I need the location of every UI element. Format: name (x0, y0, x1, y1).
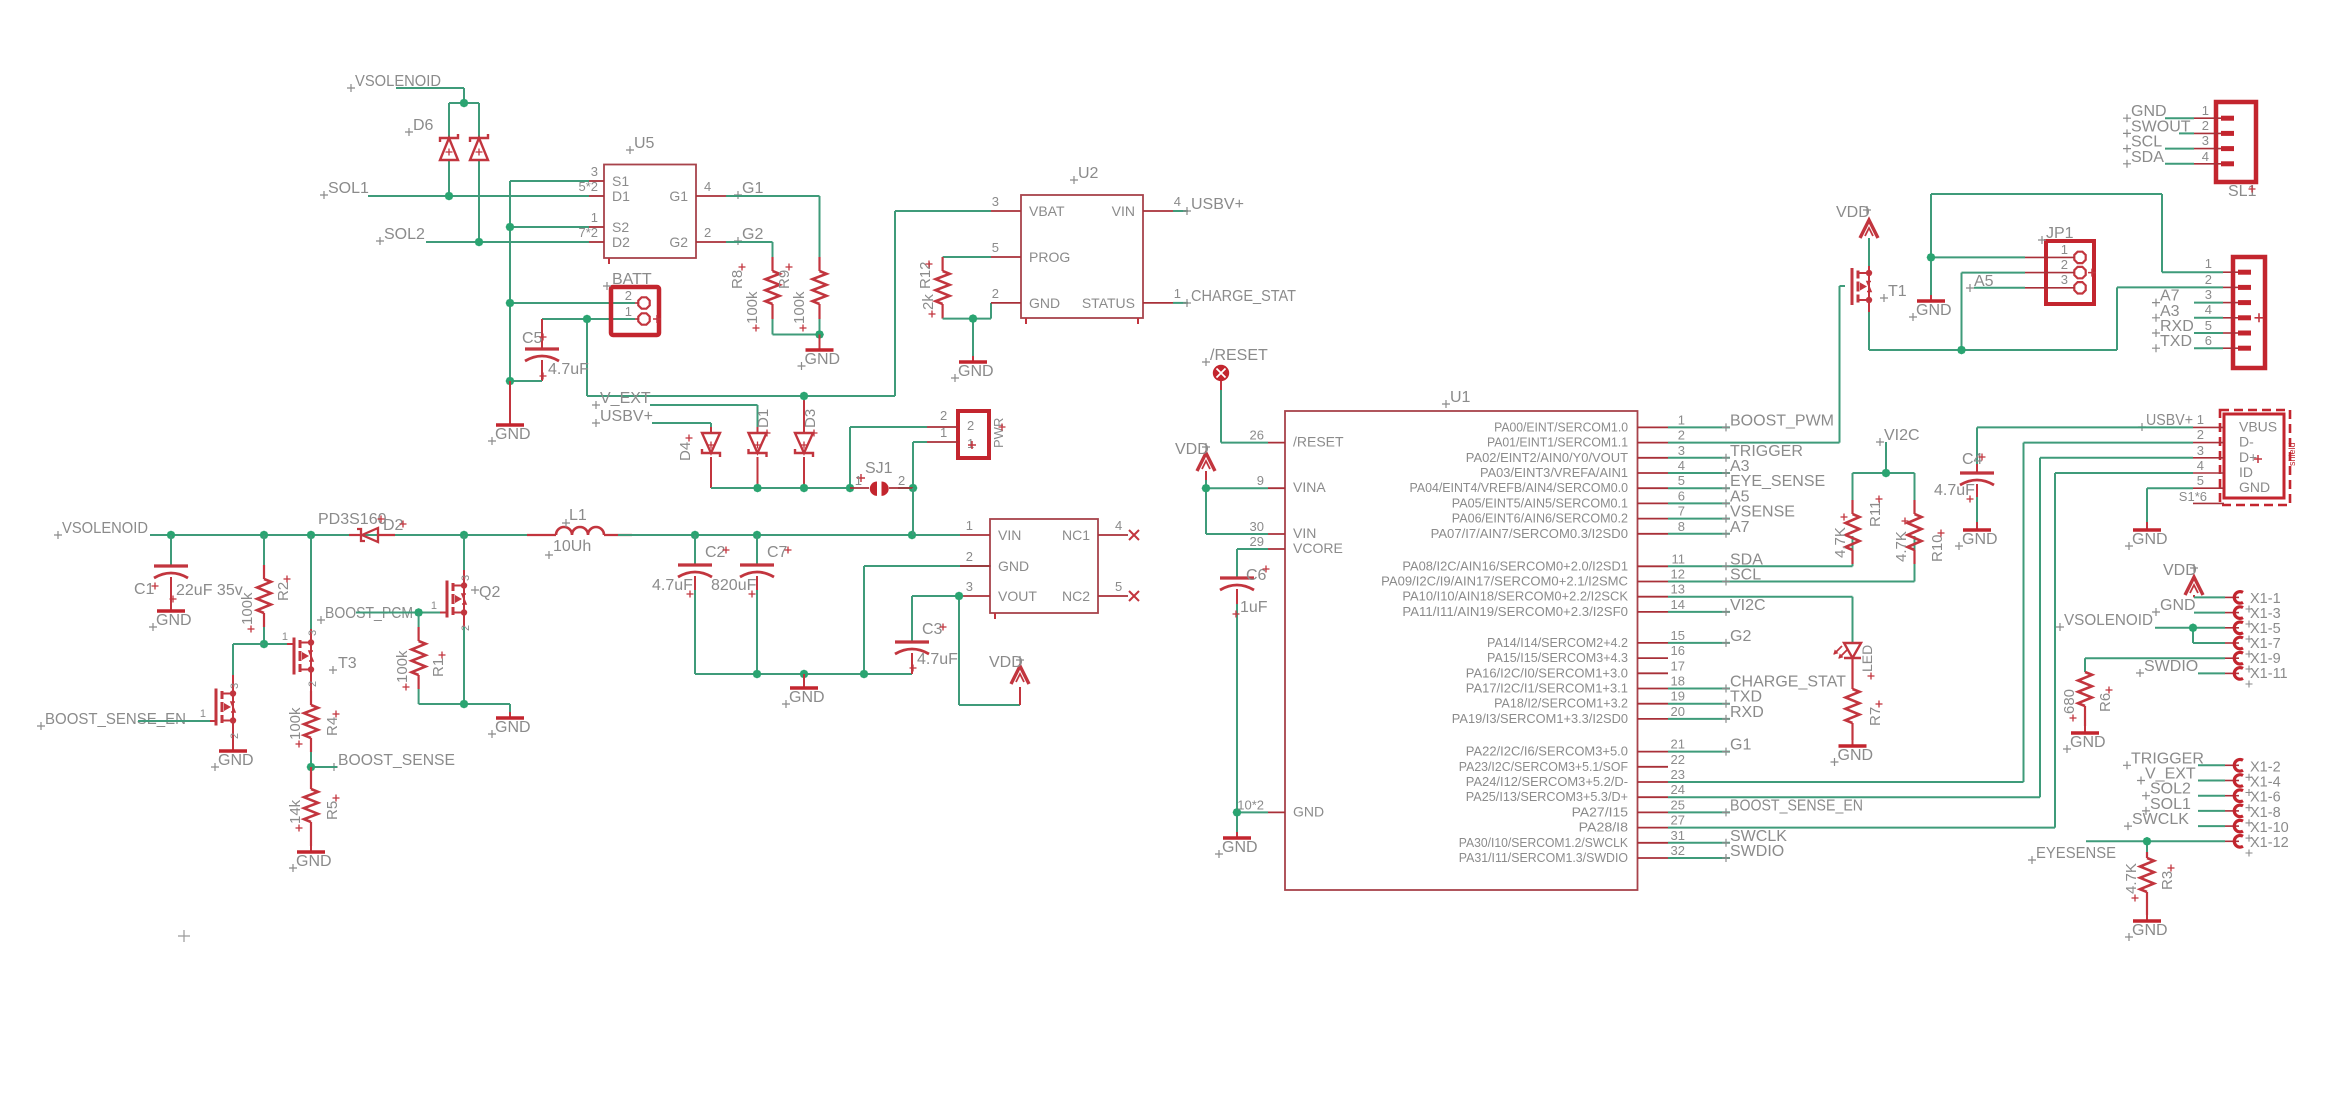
svg-text:BOOST_SENSE: BOOST_SENSE (338, 752, 455, 769)
svg-text:SWDIO: SWDIO (2144, 658, 2198, 675)
wire X1-9 to R6 (2085, 658, 2225, 672)
svg-text:R12: R12 (917, 261, 934, 289)
wire RXD X2 (2194, 332, 2223, 334)
svg-text:VSOLENOID: VSOLENOID (2064, 612, 2153, 629)
svg-text:G1: G1 (1730, 737, 1751, 754)
svg-text:PA23/I2C/SERCOM3+5.1/SOF: PA23/I2C/SERCOM3+5.1/SOF (1459, 760, 1629, 774)
resistor R3 (2123, 852, 2176, 915)
net label BOOST_PCM (317, 605, 413, 624)
svg-text:1: 1 (591, 210, 598, 225)
wire R1/Q2 source to GND (419, 704, 510, 712)
junction T1 bus (1957, 346, 1966, 355)
svg-text:GND: GND (2132, 922, 2168, 939)
svg-text:PA22/I2C/I6/SERCOM3+5.0: PA22/I2C/I6/SERCOM3+5.0 (1466, 745, 1628, 759)
wire VDD to VINA/VIN (1206, 480, 1268, 534)
connector BATT (603, 271, 661, 335)
junction BATT pin1 (583, 315, 592, 324)
wire U1 pin 7 (1668, 518, 1730, 520)
svg-text:VIN: VIN (1112, 203, 1135, 219)
svg-text:3: 3 (229, 683, 241, 689)
svg-text:4.7uF: 4.7uF (652, 577, 693, 594)
wire G2 (726, 242, 773, 264)
net label G1 (734, 180, 763, 199)
svg-text:12: 12 (1671, 567, 1685, 582)
svg-text:PA16/I2C/I0/SERCOM1+3.0: PA16/I2C/I0/SERCOM1+3.0 (1466, 666, 1628, 680)
svg-text:VCORE: VCORE (1293, 540, 1343, 556)
svg-text:SWCLK: SWCLK (2132, 811, 2189, 828)
wire U1 pin 15 (1668, 642, 1730, 644)
svg-text:PA31/I11/SERCOM1.3/SWDIO: PA31/I11/SERCOM1.3/SWDIO (1459, 851, 1628, 865)
svg-text:100k: 100k (287, 707, 304, 740)
svg-text:GND: GND (1916, 302, 1952, 319)
svg-text:PA14/I14/SERCOM2+4.2: PA14/I14/SERCOM2+4.2 (1487, 636, 1628, 650)
svg-text:1: 1 (855, 473, 862, 488)
svg-text:C1: C1 (134, 581, 155, 598)
ground below R9 (798, 335, 841, 371)
wire X1-1 (2194, 596, 2225, 598)
wire JP1 pin1 net (1931, 194, 2162, 295)
svg-text:PA04/EINT4/VREFB/AIN4/SERCOM0.: PA04/EINT4/VREFB/AIN4/SERCOM0.0 (1410, 481, 1629, 495)
wire U1 pin 31 (1668, 842, 1730, 844)
wire U1 pin 1 (1668, 426, 1730, 428)
svg-text:X1-2: X1-2 (2250, 759, 2281, 775)
svg-text:T3: T3 (338, 655, 357, 672)
pin X1-12 (2225, 835, 2289, 857)
svg-text:X1-12: X1-12 (2250, 835, 2289, 851)
svg-text:1: 1 (967, 436, 974, 451)
svg-text:PA25/I13/SERCOM3+5.3/D+: PA25/I13/SERCOM3+5.3/D+ (1466, 790, 1628, 804)
wire VCORE to C6 (1237, 549, 1268, 578)
svg-text:R10: R10 (1929, 534, 1946, 562)
svg-text:R4: R4 (324, 717, 341, 736)
junction boost ground bus (753, 670, 869, 679)
wire A5 JP1 pin3 (1974, 287, 2025, 289)
svg-text:RXD: RXD (1730, 704, 1764, 721)
svg-text:S2: S2 (612, 219, 629, 235)
svg-text:15: 15 (1671, 628, 1685, 643)
svg-text:GND: GND (2160, 597, 2196, 614)
svg-text:GND: GND (998, 558, 1029, 574)
svg-text:GND: GND (156, 612, 192, 629)
wire U1 pin 21 (1668, 751, 1730, 753)
net label SOL2 (X1) (2142, 781, 2191, 800)
wire U1 pin 8 (1668, 533, 1730, 535)
svg-text:3: 3 (591, 164, 598, 179)
svg-text:X1-9: X1-9 (2250, 651, 2281, 667)
wire D+ riser (2039, 458, 2041, 797)
svg-text:VSOLENOID: VSOLENOID (62, 520, 148, 537)
svg-text:GND: GND (789, 689, 825, 706)
svg-text:2: 2 (992, 286, 999, 301)
pin X1-2 (2225, 759, 2281, 781)
svg-text:820uF: 820uF (711, 577, 757, 594)
svg-text:29: 29 (1250, 534, 1264, 549)
svg-text:PA11/I11/AIN19/SERCOM0+2.3/I2S: PA11/I11/AIN19/SERCOM0+2.3/I2SF0 (1402, 605, 1628, 619)
capacitor C2 (652, 535, 730, 674)
svg-text:U5: U5 (634, 135, 655, 152)
wire X1-5 X1-7 (2155, 628, 2225, 643)
wire SDA SL1 (2165, 163, 2194, 165)
svg-text:NC2: NC2 (1062, 588, 1090, 604)
svg-text:5: 5 (2197, 473, 2204, 488)
svg-text:PA18/I2/SERCOM1+3.2: PA18/I2/SERCOM1+3.2 (1494, 697, 1628, 711)
junction SOL1 (445, 192, 454, 201)
junction boost input rail (691, 531, 917, 540)
ground below Q2 (488, 712, 531, 738)
svg-text:680: 680 (2061, 689, 2078, 714)
svg-text:1: 1 (2202, 103, 2209, 118)
svg-text:PA17/I2C/I1/SERCOM1+3.1: PA17/I2C/I1/SERCOM1+3.1 (1466, 682, 1628, 696)
svg-text:5: 5 (2205, 318, 2212, 333)
ground below R12 (951, 356, 994, 382)
LED (1834, 643, 1875, 680)
net label V_EXT (X1) (2137, 766, 2196, 785)
junction C5 bottom (506, 377, 515, 386)
net label USBV+ (diode row) (592, 408, 653, 427)
transistor Q1 boost sense switch (200, 675, 241, 743)
svg-text:VDD: VDD (2163, 562, 2197, 579)
wire L1 to boost VIN (618, 534, 960, 536)
svg-text:S1: S1 (612, 173, 629, 189)
supply symbol /RESET (1213, 365, 1229, 390)
net label GND (SL1) (2123, 103, 2167, 122)
resistor R4 (287, 691, 341, 767)
svg-text:18: 18 (1671, 674, 1685, 689)
svg-text:ID: ID (2239, 464, 2253, 480)
svg-text:3: 3 (992, 194, 999, 209)
svg-text:4: 4 (1678, 458, 1685, 473)
wire X2 pin2 (2117, 286, 2223, 288)
svg-text:VOUT: VOUT (998, 588, 1037, 604)
capacitor C4 (1934, 427, 1994, 522)
wire U1 pin 18 (1668, 688, 1730, 690)
svg-text:GND: GND (495, 426, 531, 443)
wire T3 gate to Q1 drain (233, 644, 264, 675)
net label RXD (U1 pin 20) (1722, 704, 1764, 723)
diode D4 (677, 427, 720, 488)
svg-text:T1: T1 (1888, 283, 1907, 300)
ground below C6 (1215, 832, 1258, 858)
junction VDD VINA (1202, 484, 1211, 493)
svg-text:CHARGE_STAT: CHARGE_STAT (1191, 288, 1296, 305)
svg-text:2k: 2k (920, 294, 937, 310)
wire /RESET to U1 (1221, 390, 1268, 443)
wire SJ1 down to VIN rail (912, 488, 914, 535)
transistor T3 (264, 535, 357, 691)
svg-text:2: 2 (2205, 272, 2212, 287)
svg-text:4: 4 (2202, 149, 2209, 164)
svg-text:SWDIO: SWDIO (1730, 843, 1784, 860)
svg-text:R5: R5 (324, 801, 341, 820)
net label A5 (JP1) (1966, 273, 1994, 292)
wire TRIGGER X1 (2198, 764, 2225, 766)
svg-text:PROG: PROG (1029, 249, 1070, 265)
svg-text:X1-4: X1-4 (2250, 775, 2281, 791)
svg-text:VI2C: VI2C (1884, 427, 1920, 444)
junction VSOLENOID top (460, 99, 469, 108)
svg-text:2: 2 (1678, 428, 1685, 443)
wire C6 to U1 GND pin (1237, 812, 1268, 832)
svg-text:/RESET: /RESET (1210, 347, 1268, 364)
wire boost ground bus (695, 566, 991, 674)
net label SWDIO (U1 pin 32) (1722, 843, 1784, 862)
wire V_EXT (650, 405, 758, 427)
net label VI2C (U1 pin 14) (1722, 597, 1766, 616)
wire U1 pin 20 (1668, 718, 1730, 720)
svg-text:PA15/I15/SERCOM3+4.3: PA15/I15/SERCOM3+4.3 (1487, 651, 1628, 665)
net label A7 (X2) (2152, 288, 2180, 307)
svg-text:GND: GND (2070, 734, 2106, 751)
svg-text:VBAT: VBAT (1029, 203, 1065, 219)
svg-text:22: 22 (1671, 752, 1685, 767)
wire VOUT to VDD (912, 596, 1020, 705)
supply VDD (T1) (1836, 204, 1878, 238)
svg-text:2: 2 (2061, 257, 2068, 272)
svg-text:G1: G1 (742, 180, 763, 197)
svg-text:4: 4 (1115, 518, 1122, 533)
wire G1 (726, 196, 820, 264)
junction JP1 pin1 (1927, 253, 1936, 262)
svg-text:BOOST_SENSE_EN: BOOST_SENSE_EN (45, 711, 186, 728)
svg-text:D2: D2 (383, 517, 404, 534)
svg-text:PA00/EINT/SERCOM1.0: PA00/EINT/SERCOM1.0 (1494, 420, 1628, 434)
svg-text:PA05/EINT5/AIN5/SERCOM0.1: PA05/EINT5/AIN5/SERCOM0.1 (1452, 496, 1628, 510)
ground below R5 (289, 846, 332, 872)
svg-text:5: 5 (992, 240, 999, 255)
resistor R12 (917, 257, 950, 319)
capacitor C5 (522, 319, 589, 381)
wire SOL2 X1 (2198, 795, 2225, 797)
svg-text:6: 6 (1678, 488, 1685, 503)
net label /RESET (1202, 347, 1268, 366)
svg-text:4.7uF: 4.7uF (917, 651, 958, 668)
svg-text:PD3S160: PD3S160 (318, 511, 387, 528)
junction Q2 source (460, 700, 469, 709)
svg-text:3: 3 (966, 579, 973, 594)
connector SL1 (2194, 102, 2257, 200)
svg-text:10Uh: 10Uh (553, 538, 591, 555)
svg-text:2: 2 (2197, 427, 2204, 442)
resistor R7 (1846, 658, 1885, 740)
svg-text:5: 5 (1678, 473, 1685, 488)
wire R12 to PROG (943, 256, 991, 258)
svg-text:27: 27 (1671, 813, 1685, 828)
junction VOUT (955, 592, 964, 601)
svg-text:1: 1 (282, 631, 288, 643)
svg-text:1: 1 (1678, 412, 1685, 427)
svg-text:X1-11: X1-11 (2250, 666, 2288, 682)
svg-text:X1-1: X1-1 (2250, 591, 2281, 607)
svg-text:D4: D4 (677, 442, 694, 461)
net label SWOUT (SL1) (2123, 118, 2191, 137)
wire U1 pin 4 (1668, 472, 1730, 474)
svg-text:D1: D1 (755, 409, 772, 428)
wire U1 pin 14 (1668, 611, 1730, 613)
svg-text:3: 3 (2061, 272, 2068, 287)
junction BATT pin2 (506, 299, 515, 308)
net label SWDIO (X1-11) (2136, 658, 2198, 677)
ground below C1 (149, 605, 192, 631)
wire U1 pin 25 (1668, 811, 1730, 813)
supply VDD (U1) (1175, 441, 1215, 480)
svg-text:VBUS: VBUS (2239, 418, 2277, 434)
svg-text:R6: R6 (2097, 693, 2114, 712)
net label GND (X1-3) (2152, 597, 2196, 616)
wire T1 source bus (1869, 273, 2117, 350)
net label BOOST_SENSE_EN (U1 pin 25) (1722, 797, 1863, 816)
wire U5 S1/S2 feed (510, 181, 589, 381)
schottky diode D2 PD3S160 (318, 511, 407, 542)
svg-text:GND: GND (1222, 839, 1258, 856)
transistor T1 (1852, 238, 1907, 312)
wire U1 pin 19 (1668, 703, 1730, 705)
svg-text:shield: shield (2287, 442, 2297, 466)
wire U1 pin 32 (1668, 857, 1730, 859)
svg-text:S1*6: S1*6 (2179, 489, 2207, 504)
net label SCL (SL1) (2123, 134, 2162, 153)
net label USBV+ (U2) (1183, 196, 1244, 215)
svg-text:1: 1 (1174, 286, 1181, 301)
junction D3 top (800, 392, 809, 401)
svg-text:GND: GND (1029, 295, 1060, 311)
svg-text:20: 20 (1671, 704, 1685, 719)
svg-text:1: 1 (940, 425, 947, 440)
wire X1-3 (2194, 612, 2225, 614)
svg-text:2: 2 (898, 473, 905, 488)
net label SDA (U1 pin 11) (1722, 551, 1763, 570)
junction diode bus (753, 484, 917, 493)
svg-text:4: 4 (2197, 458, 2204, 473)
net label VSOLENOID (X1-5) (2056, 612, 2153, 631)
net label SOL2 (376, 226, 425, 245)
svg-text:PA08/I2C/AIN16/SERCOM0+2.0/I2S: PA08/I2C/AIN16/SERCOM0+2.0/I2SD1 (1402, 559, 1628, 573)
junction BOOST_SENSE (307, 763, 316, 772)
svg-text:X1-5: X1-5 (2250, 621, 2281, 637)
svg-text:14k: 14k (287, 799, 304, 824)
net label G1 (U1 pin 21) (1722, 737, 1751, 756)
ground below C4 (1955, 522, 1998, 550)
solder jumper SJ1 (850, 460, 913, 496)
wire D- riser (2023, 443, 2025, 782)
svg-text:24: 24 (1671, 782, 1685, 797)
ground below USB (2125, 522, 2168, 550)
svg-text:2: 2 (967, 418, 974, 433)
IC U5 (578, 135, 726, 264)
junction X1-5 (2189, 623, 2198, 632)
svg-text:C7: C7 (767, 544, 788, 561)
svg-text:25: 25 (1671, 797, 1685, 812)
wire U1 pin 2 (1668, 442, 1840, 444)
connector X2 serial header (2205, 256, 2265, 368)
svg-text:VDD: VDD (1836, 204, 1870, 221)
svg-text:SDA: SDA (2131, 149, 2164, 166)
svg-text:C4: C4 (1962, 451, 1983, 468)
net label A7 (U1 pin 8) (1722, 519, 1750, 538)
resistor R8 (729, 257, 780, 332)
ground boost bus (782, 674, 825, 708)
svg-text:BOOST_SENSE_EN: BOOST_SENSE_EN (1730, 797, 1863, 814)
svg-text:GND: GND (296, 853, 332, 870)
net label CHARGE_STAT (U2) (1183, 288, 1296, 307)
supply VDD (boost) (989, 654, 1029, 684)
svg-text:PWR: PWR (991, 418, 1006, 448)
svg-text:BOOST_PWM: BOOST_PWM (1730, 412, 1834, 429)
wire diode output bus (711, 427, 927, 535)
svg-text:PA06/EINT6/AIN6/SERCOM0.2: PA06/EINT6/AIN6/SERCOM0.2 (1452, 512, 1628, 526)
svg-text:R2: R2 (275, 582, 292, 601)
connector JP1 (2025, 225, 2096, 304)
pin X1-1 (2225, 591, 2281, 613)
capacitor C6 (1220, 566, 1270, 813)
svg-text:SOL1: SOL1 (328, 180, 369, 197)
net label G2 (U1 pin 15) (1722, 628, 1751, 647)
svg-text:PA01/EINT1/SERCOM1.1: PA01/EINT1/SERCOM1.1 (1487, 436, 1628, 450)
svg-text:100k: 100k (791, 291, 808, 324)
svg-text:EYESENSE: EYESENSE (2036, 845, 2116, 862)
wire U1 pin 24 (1668, 796, 2040, 798)
svg-text:2: 2 (940, 408, 947, 423)
svg-text:5*2: 5*2 (578, 179, 598, 194)
svg-text:VINA: VINA (1293, 479, 1326, 495)
wire U1 pin 6 (1668, 502, 1730, 504)
net label TRIGGER (X1) (2123, 750, 2204, 769)
svg-text:4.7K: 4.7K (2123, 863, 2140, 894)
junction T3 gate (260, 640, 269, 649)
svg-text:D2: D2 (612, 234, 630, 250)
wire JP1 pin2 (1962, 272, 2026, 274)
wire SOL1 (368, 195, 589, 197)
svg-text:100k: 100k (744, 291, 761, 324)
svg-text:3: 3 (460, 575, 472, 581)
net label VSOLENOID (347, 73, 441, 92)
svg-text:X1-8: X1-8 (2250, 805, 2281, 821)
ground below C5 (488, 381, 531, 445)
wire EYESENSE (2086, 841, 2225, 852)
svg-text:4.7uF: 4.7uF (1934, 482, 1975, 499)
wire SCL SL1 (2165, 148, 2194, 150)
svg-text:VDD: VDD (989, 654, 1023, 671)
svg-text:11: 11 (1672, 551, 1686, 566)
svg-text:31: 31 (1671, 828, 1685, 843)
pin X1-7 (2225, 636, 2281, 658)
svg-text:VDD: VDD (1175, 441, 1209, 458)
resistor R11 (1832, 496, 1884, 565)
supply VDD (X1-1) (2163, 562, 2203, 597)
svg-text:A7: A7 (1730, 519, 1750, 536)
svg-text:100k: 100k (394, 650, 411, 683)
svg-text:3: 3 (2202, 133, 2209, 148)
svg-text:R9: R9 (776, 270, 793, 289)
wire SOL2 (426, 241, 589, 243)
pin X1-9 (2225, 651, 2281, 673)
net label V_EXT (592, 390, 651, 409)
transistor Q2 (431, 535, 501, 704)
diode D3 (795, 396, 819, 488)
svg-text:19: 19 (1671, 689, 1685, 704)
resistor R9 (776, 257, 827, 332)
wire C5 bottom (510, 380, 542, 382)
svg-text:16: 16 (1671, 643, 1685, 658)
connector USB X3 (2179, 410, 2297, 505)
svg-text:2: 2 (307, 681, 319, 687)
svg-text:1: 1 (625, 304, 632, 319)
pin X1-3 (2225, 606, 2281, 628)
svg-text:PA19/I3/SERCOM1+3.3/I2SD0: PA19/I3/SERCOM1+3.3/I2SD0 (1452, 712, 1628, 726)
svg-text:G2: G2 (1730, 628, 1751, 645)
svg-text:8: 8 (1678, 519, 1685, 534)
wire U1 pin 13 (1668, 596, 1853, 598)
svg-text:SOL2: SOL2 (384, 226, 425, 243)
